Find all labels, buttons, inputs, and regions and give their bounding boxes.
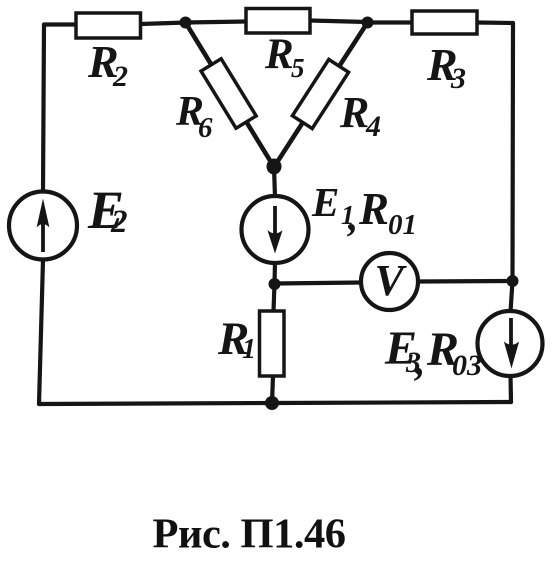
wire left vertical top (corner to E2)	[43, 25, 44, 193]
svg-text:,: ,	[414, 338, 426, 384]
E1 arrow (down)	[267, 206, 282, 254]
EMF source E2 circle	[9, 192, 77, 260]
E3 arrow (down)	[504, 318, 519, 369]
svg-text:3: 3	[450, 62, 466, 95]
node D dot	[269, 278, 281, 290]
svg-text:V: V	[375, 256, 408, 305]
svg-text:1: 1	[242, 334, 256, 365]
svg-text:03: 03	[452, 349, 482, 382]
EMF source E1 circle	[242, 196, 309, 263]
wire node D to voltmeter	[275, 283, 362, 284]
wire right vertical (top corner to node C)	[510, 23, 515, 281]
E2 arrow (up)	[37, 199, 50, 253]
wire E1 to node D	[272, 262, 277, 284]
wire R3 to top-right corner	[477, 20, 513, 25]
wire diagonal node A to center junction (R6 branch)	[186, 23, 275, 168]
wire R1 to bottom node	[272, 376, 273, 403]
svg-text:R: R	[339, 88, 369, 137]
node B dot	[362, 17, 374, 29]
svg-text:6: 6	[198, 112, 213, 144]
wire top-left corner to R2	[44, 22, 76, 26]
node C dot	[507, 275, 519, 287]
wire E3 to bottom wire	[508, 375, 513, 402]
svg-text:5: 5	[291, 53, 305, 83]
resistor R2	[76, 13, 141, 38]
wire R5 to node B	[310, 21, 368, 23]
wire bottom left (corner to bottom node)	[39, 403, 272, 404]
EMF source E3 circle	[478, 311, 543, 376]
svg-text:4: 4	[365, 110, 381, 143]
node A dot	[180, 17, 192, 29]
wire junction to E1	[274, 167, 275, 197]
svg-text:Рис. П1.46: Рис. П1.46	[153, 511, 346, 558]
wire bottom right (bottom node to corner)	[272, 402, 511, 403]
resistor R3	[412, 11, 477, 34]
resistor R5	[246, 9, 310, 34]
wire node A to R5	[186, 22, 247, 23]
wire node B to R3	[368, 20, 413, 24]
svg-text:01: 01	[388, 209, 417, 241]
svg-text:2: 2	[112, 60, 128, 93]
wire node D to R1	[274, 284, 275, 311]
wire voltmeter to node C	[418, 279, 513, 284]
svg-text:E: E	[311, 179, 339, 225]
voltmeter V circle	[361, 253, 418, 310]
resistor R1	[260, 311, 285, 376]
svg-text:R: R	[358, 184, 389, 234]
wire left vertical bottom (E2 to bottom corner)	[39, 260, 43, 404]
svg-text:,: ,	[347, 193, 358, 239]
center junction dot	[267, 159, 282, 175]
wire node C to E3	[511, 281, 513, 312]
bottom node dot	[265, 396, 279, 410]
wire diagonal node B to center junction (R4 branch)	[274, 23, 368, 168]
resistor R4	[292, 59, 348, 128]
resistor R6	[201, 59, 256, 128]
wire R2 to node A	[141, 23, 187, 25]
svg-text:2: 2	[110, 204, 128, 240]
svg-text:R: R	[264, 31, 294, 78]
